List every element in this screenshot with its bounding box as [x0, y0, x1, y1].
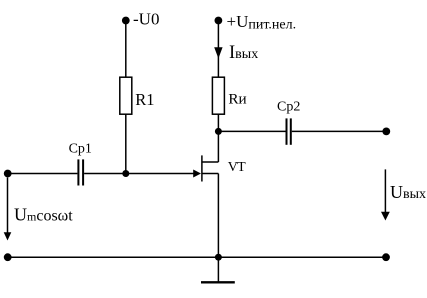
svg-text:VT: VT: [228, 160, 246, 175]
voltage arrow Uвых: [381, 169, 390, 220]
wire: [217, 21, 219, 78]
output terminal top: [382, 127, 390, 135]
bottom-right terminal: [382, 253, 390, 261]
wire: [218, 130, 285, 132]
wire: [217, 131, 219, 162]
wire: [217, 174, 219, 258]
power terminal -U0: [122, 17, 130, 25]
resistor Rи: [212, 77, 224, 114]
bottom-left terminal: [4, 253, 12, 261]
wire: [292, 130, 387, 132]
input terminal: [4, 170, 12, 178]
node gate junction: [122, 170, 129, 177]
node drain junction: [215, 128, 222, 135]
capacitor Cp1: [78, 159, 83, 185]
svg-text:-U0: -U0: [133, 10, 159, 29]
node bottom junction: [215, 254, 222, 261]
svg-text:Umcosωt: Umcosωt: [14, 204, 73, 224]
gate arrow: [193, 170, 201, 178]
resistor R1: [120, 77, 132, 114]
capacitor Cp2: [287, 118, 291, 144]
svg-text:Cp2: Cp2: [277, 99, 300, 114]
voltage arrow Umcosωt: [4, 178, 12, 241]
ground: [201, 257, 235, 282]
svg-text:Rи: Rи: [228, 91, 246, 108]
svg-text:Cp1: Cp1: [69, 142, 92, 157]
transistor VT: [202, 155, 219, 181]
svg-text:R1: R1: [135, 90, 154, 109]
wire: [84, 173, 194, 175]
wire: [8, 256, 386, 258]
current arrow Iвых: [214, 47, 222, 58]
wire: [8, 173, 78, 175]
power terminal +Uпит.нел.: [215, 17, 223, 25]
wire: [125, 114, 127, 173]
wire: [217, 114, 219, 131]
wire: [125, 21, 127, 78]
